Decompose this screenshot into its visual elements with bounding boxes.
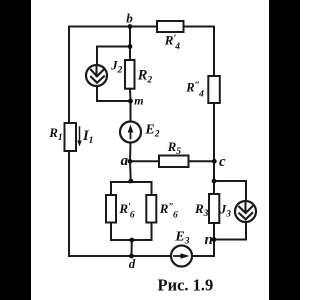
resistor R2 bbox=[125, 60, 135, 89]
wire R'6 bottom stub bbox=[110, 223, 112, 241]
node c bbox=[212, 159, 217, 164]
wire node a down bbox=[129, 161, 132, 182]
svg-text:R′4: R′4 bbox=[164, 33, 180, 53]
svg-text:E2: E2 bbox=[144, 123, 159, 140]
wire R6 loop top rail bbox=[111, 181, 152, 183]
wire J2 loop top bbox=[97, 46, 130, 48]
svg-text:d: d bbox=[129, 256, 136, 271]
resistor R3 bbox=[209, 194, 219, 223]
wire R3 to node n bbox=[213, 223, 215, 240]
junction below b bbox=[128, 44, 133, 49]
wire left vertical lower bbox=[68, 151, 70, 256]
current source J2 bbox=[86, 65, 107, 86]
wire J2 top stub bbox=[96, 47, 98, 66]
wire R2 top stub bbox=[129, 47, 131, 61]
svg-text:I1: I1 bbox=[82, 128, 93, 146]
wire left vertical upper bbox=[68, 27, 70, 124]
wire R6 loop bottom rail bbox=[111, 239, 152, 241]
wire top left to R'4 bbox=[69, 26, 157, 28]
wire R'6 top stub bbox=[110, 182, 112, 195]
emf source E3 bbox=[171, 246, 192, 267]
wire R''6 bottom stub bbox=[151, 223, 153, 241]
svg-text:J2: J2 bbox=[110, 58, 122, 75]
svg-text:n: n bbox=[205, 232, 213, 248]
resistor R'4 bbox=[157, 21, 184, 32]
wire J2 bottom stub bbox=[96, 86, 98, 101]
svg-text:R2: R2 bbox=[137, 67, 153, 85]
svg-text:a: a bbox=[121, 153, 129, 169]
svg-text:Рис. 1.9: Рис. 1.9 bbox=[158, 275, 214, 294]
resistor R5 bbox=[159, 156, 189, 168]
node m bbox=[128, 99, 133, 104]
wire node n to bottom bbox=[213, 240, 215, 257]
wire right vertical upper bbox=[213, 27, 215, 77]
node d bbox=[129, 254, 134, 259]
svg-text:c: c bbox=[219, 154, 226, 170]
wire node a to R5 bbox=[130, 160, 159, 162]
emf source E2 bbox=[120, 122, 141, 143]
wire J3 bottom stub bbox=[245, 222, 247, 240]
junction R6 top bbox=[128, 179, 133, 184]
wire R''6 top stub bbox=[151, 182, 153, 195]
node a bbox=[128, 159, 133, 164]
svg-text:R1: R1 bbox=[48, 125, 62, 143]
svg-text:R′6: R′6 bbox=[118, 201, 134, 221]
wire R2 to node m bbox=[129, 89, 132, 101]
svg-text:E3: E3 bbox=[174, 229, 189, 246]
wire R''4 to node c bbox=[213, 103, 215, 181]
wire E2 to node a bbox=[129, 143, 132, 162]
junction R6 bottom bbox=[129, 238, 134, 243]
wire to node d bbox=[131, 240, 133, 256]
current source J3 bbox=[235, 201, 256, 222]
wire J3 to node n bbox=[214, 239, 246, 241]
wire node c junction to R3 bbox=[213, 181, 215, 194]
svg-text:m: m bbox=[134, 94, 143, 108]
right scan bar bbox=[269, 0, 300, 300]
wire bottom left bbox=[69, 255, 171, 257]
svg-text:R″6: R″6 bbox=[159, 201, 178, 221]
wire J2 loop bottom bbox=[97, 100, 131, 102]
resistor R1 bbox=[65, 123, 77, 151]
svg-text:b: b bbox=[126, 11, 133, 26]
resistor R''4 bbox=[208, 76, 220, 103]
svg-text:R″4: R″4 bbox=[185, 81, 204, 100]
junction below c bbox=[212, 179, 217, 184]
left scan bar bbox=[0, 0, 31, 300]
wire node b down bbox=[129, 27, 131, 47]
wire junction c to J3 branch bbox=[214, 180, 246, 182]
wire J3 top stub bbox=[245, 181, 247, 201]
svg-text:R3: R3 bbox=[194, 201, 209, 219]
resistor R''6 bbox=[146, 195, 156, 223]
wire R'4 to right corner bbox=[184, 26, 215, 28]
node n bbox=[212, 237, 217, 242]
wire R5 to node c bbox=[189, 160, 215, 162]
node b bbox=[128, 24, 133, 29]
wire bottom right of E3 bbox=[192, 255, 214, 257]
svg-text:R5: R5 bbox=[167, 139, 182, 157]
svg-text:J3: J3 bbox=[219, 202, 231, 219]
current arrow I1 bbox=[79, 127, 81, 142]
resistor R'6 bbox=[106, 195, 116, 223]
wire node m to E2 bbox=[130, 101, 132, 122]
